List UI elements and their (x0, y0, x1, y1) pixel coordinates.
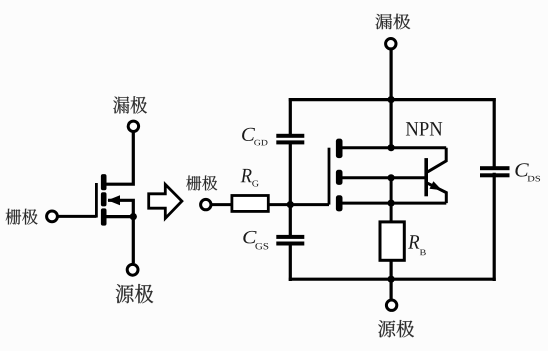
transistor Q3 (parasitic NPN) base bar (424, 158, 428, 196)
wire: left gate lead (58, 215, 97, 218)
label CGD (242, 128, 255, 141)
resistor RG (232, 196, 268, 212)
transistor Q3 collector branch (428, 148, 447, 172)
label RG (241, 169, 252, 182)
label NPN (406, 122, 442, 135)
label "栅极" (left gate label) (6, 209, 38, 225)
wire: body row (Q2 body / Q3 base net) (342, 176, 425, 179)
label "漏极" (left drain label) (113, 96, 147, 113)
transistor Q3 emitter branch (428, 183, 447, 203)
label "栅极" (right gate label) (186, 175, 217, 190)
wire: RG to gate rail (268, 203, 329, 206)
label RB (408, 235, 419, 248)
transistor Q2 source contact bar (336, 195, 343, 211)
junction: source row 4-way node (388, 200, 395, 207)
label CGS (243, 231, 256, 243)
wire: right rail lower segment (CDS to source rail) (493, 173, 496, 281)
terminal: gate node (201, 199, 211, 209)
terminal: left gate node (47, 211, 58, 222)
wire: left source lead (132, 217, 135, 264)
capacitor CGD (276, 134, 304, 145)
transistor Q1 (left MOSFET) gate plate (95, 183, 98, 218)
junction: source lead on bottom rail (388, 276, 395, 283)
label "漏极" (drain label) (376, 14, 411, 30)
terminal: left source node (127, 264, 138, 275)
transistor Q2 drain contact bar (336, 139, 343, 159)
arrow of Q1 body (points into channel) (108, 195, 121, 205)
arrow of Q3 emitter (430, 181, 443, 190)
junction: Q1 source/body node (130, 213, 137, 220)
transistor Q1 source contact bar (101, 208, 107, 225)
label CDS (515, 163, 528, 176)
capacitor CGS (276, 235, 304, 246)
capacitor CDS (480, 166, 510, 177)
label "源极" (source label) (378, 320, 414, 337)
wire: left rail upper segment (drain to CGD) (289, 98, 292, 135)
junction: drain lead on top rail (388, 96, 395, 103)
wire: Q1 source connection (106, 215, 134, 218)
label "源极" (left source label) (116, 284, 154, 303)
resistor RB (380, 222, 404, 260)
transistor Q2 (internal MOSFET) gate plate (328, 148, 331, 205)
junction: body row with RB branch (388, 174, 395, 181)
wire: top rail (drain net) (289, 98, 496, 101)
wire: left rail middle segment (CGD to CGS) (289, 143, 292, 236)
wire: RB to bottom rail and source lead (390, 260, 393, 299)
block arrow (equivalence) (149, 184, 182, 218)
wire: body node down to RB (390, 178, 393, 222)
wire: source row (Q2 source / Q3 emitter net) (342, 202, 446, 205)
wire: drain lead down to collector row (390, 49, 393, 148)
wire: right rail upper segment (drain to CDS) (493, 98, 496, 167)
wire: gate to RG (212, 203, 232, 206)
transistor Q1 body contact bar (101, 192, 107, 206)
junction: drain row with drain lead (388, 144, 395, 151)
wire: bottom rail (source net) (289, 278, 496, 281)
wire: drain row (Q2 drain / Q3 collector net) (342, 146, 446, 149)
junction: gate node on left rail (287, 201, 294, 208)
transistor Q1 drain contact bar (101, 174, 107, 190)
wire: Q1 body connection (108, 200, 133, 216)
terminal: drain node (386, 39, 396, 49)
terminal: left drain node (128, 121, 138, 131)
wire: left drain lead (106, 132, 134, 185)
transistor Q2 body contact bar (336, 170, 343, 185)
wire: left rail lower segment (CGS to source rail) (289, 245, 292, 281)
terminal: source node (386, 300, 396, 310)
